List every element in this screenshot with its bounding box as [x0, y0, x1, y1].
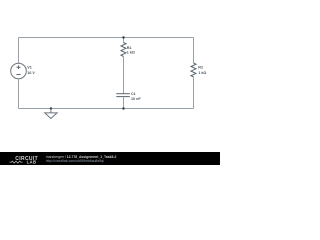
- node junction bottom (C1 / bottom wire): [122, 107, 124, 109]
- wire left vertical upper: [18, 38, 20, 64]
- svg-text:1 kΩ: 1 kΩ: [127, 50, 135, 54]
- wire C1 bottom lead: [123, 97, 125, 109]
- wire left vertical lower: [18, 79, 20, 109]
- capacitor C1: [116, 94, 130, 97]
- node junction top (R1 branch / top wire): [122, 36, 124, 38]
- resistor R2: [191, 63, 196, 77]
- svg-text:V1: V1: [27, 66, 32, 70]
- node junction ground: [50, 107, 52, 109]
- svg-text:16 V: 16 V: [27, 71, 35, 75]
- wire R1 to C1: [123, 57, 125, 94]
- voltage source V1: [11, 63, 27, 79]
- watermark bar: [0, 152, 220, 165]
- wire bottom horizontal: [19, 108, 194, 110]
- svg-text:1 kΩ: 1 kΩ: [198, 71, 206, 75]
- CircuitLab logo: [10, 156, 39, 165]
- svg-text:10 nF: 10 nF: [131, 97, 141, 101]
- wire R1 branch top lead: [123, 38, 125, 43]
- svg-text:http://circuitlab.com/c4699mb6: http://circuitlab.com/c4699mb6au8e5q/: [46, 159, 104, 163]
- wire top horizontal: [19, 37, 194, 39]
- svg-text:LAB: LAB: [27, 160, 37, 165]
- ground symbol: [45, 109, 57, 119]
- svg-text:C1: C1: [131, 92, 136, 96]
- resistor R1: [121, 43, 126, 57]
- wire right vertical upper: [193, 38, 195, 64]
- svg-text:R2: R2: [198, 66, 203, 70]
- wire right vertical lower: [193, 77, 195, 109]
